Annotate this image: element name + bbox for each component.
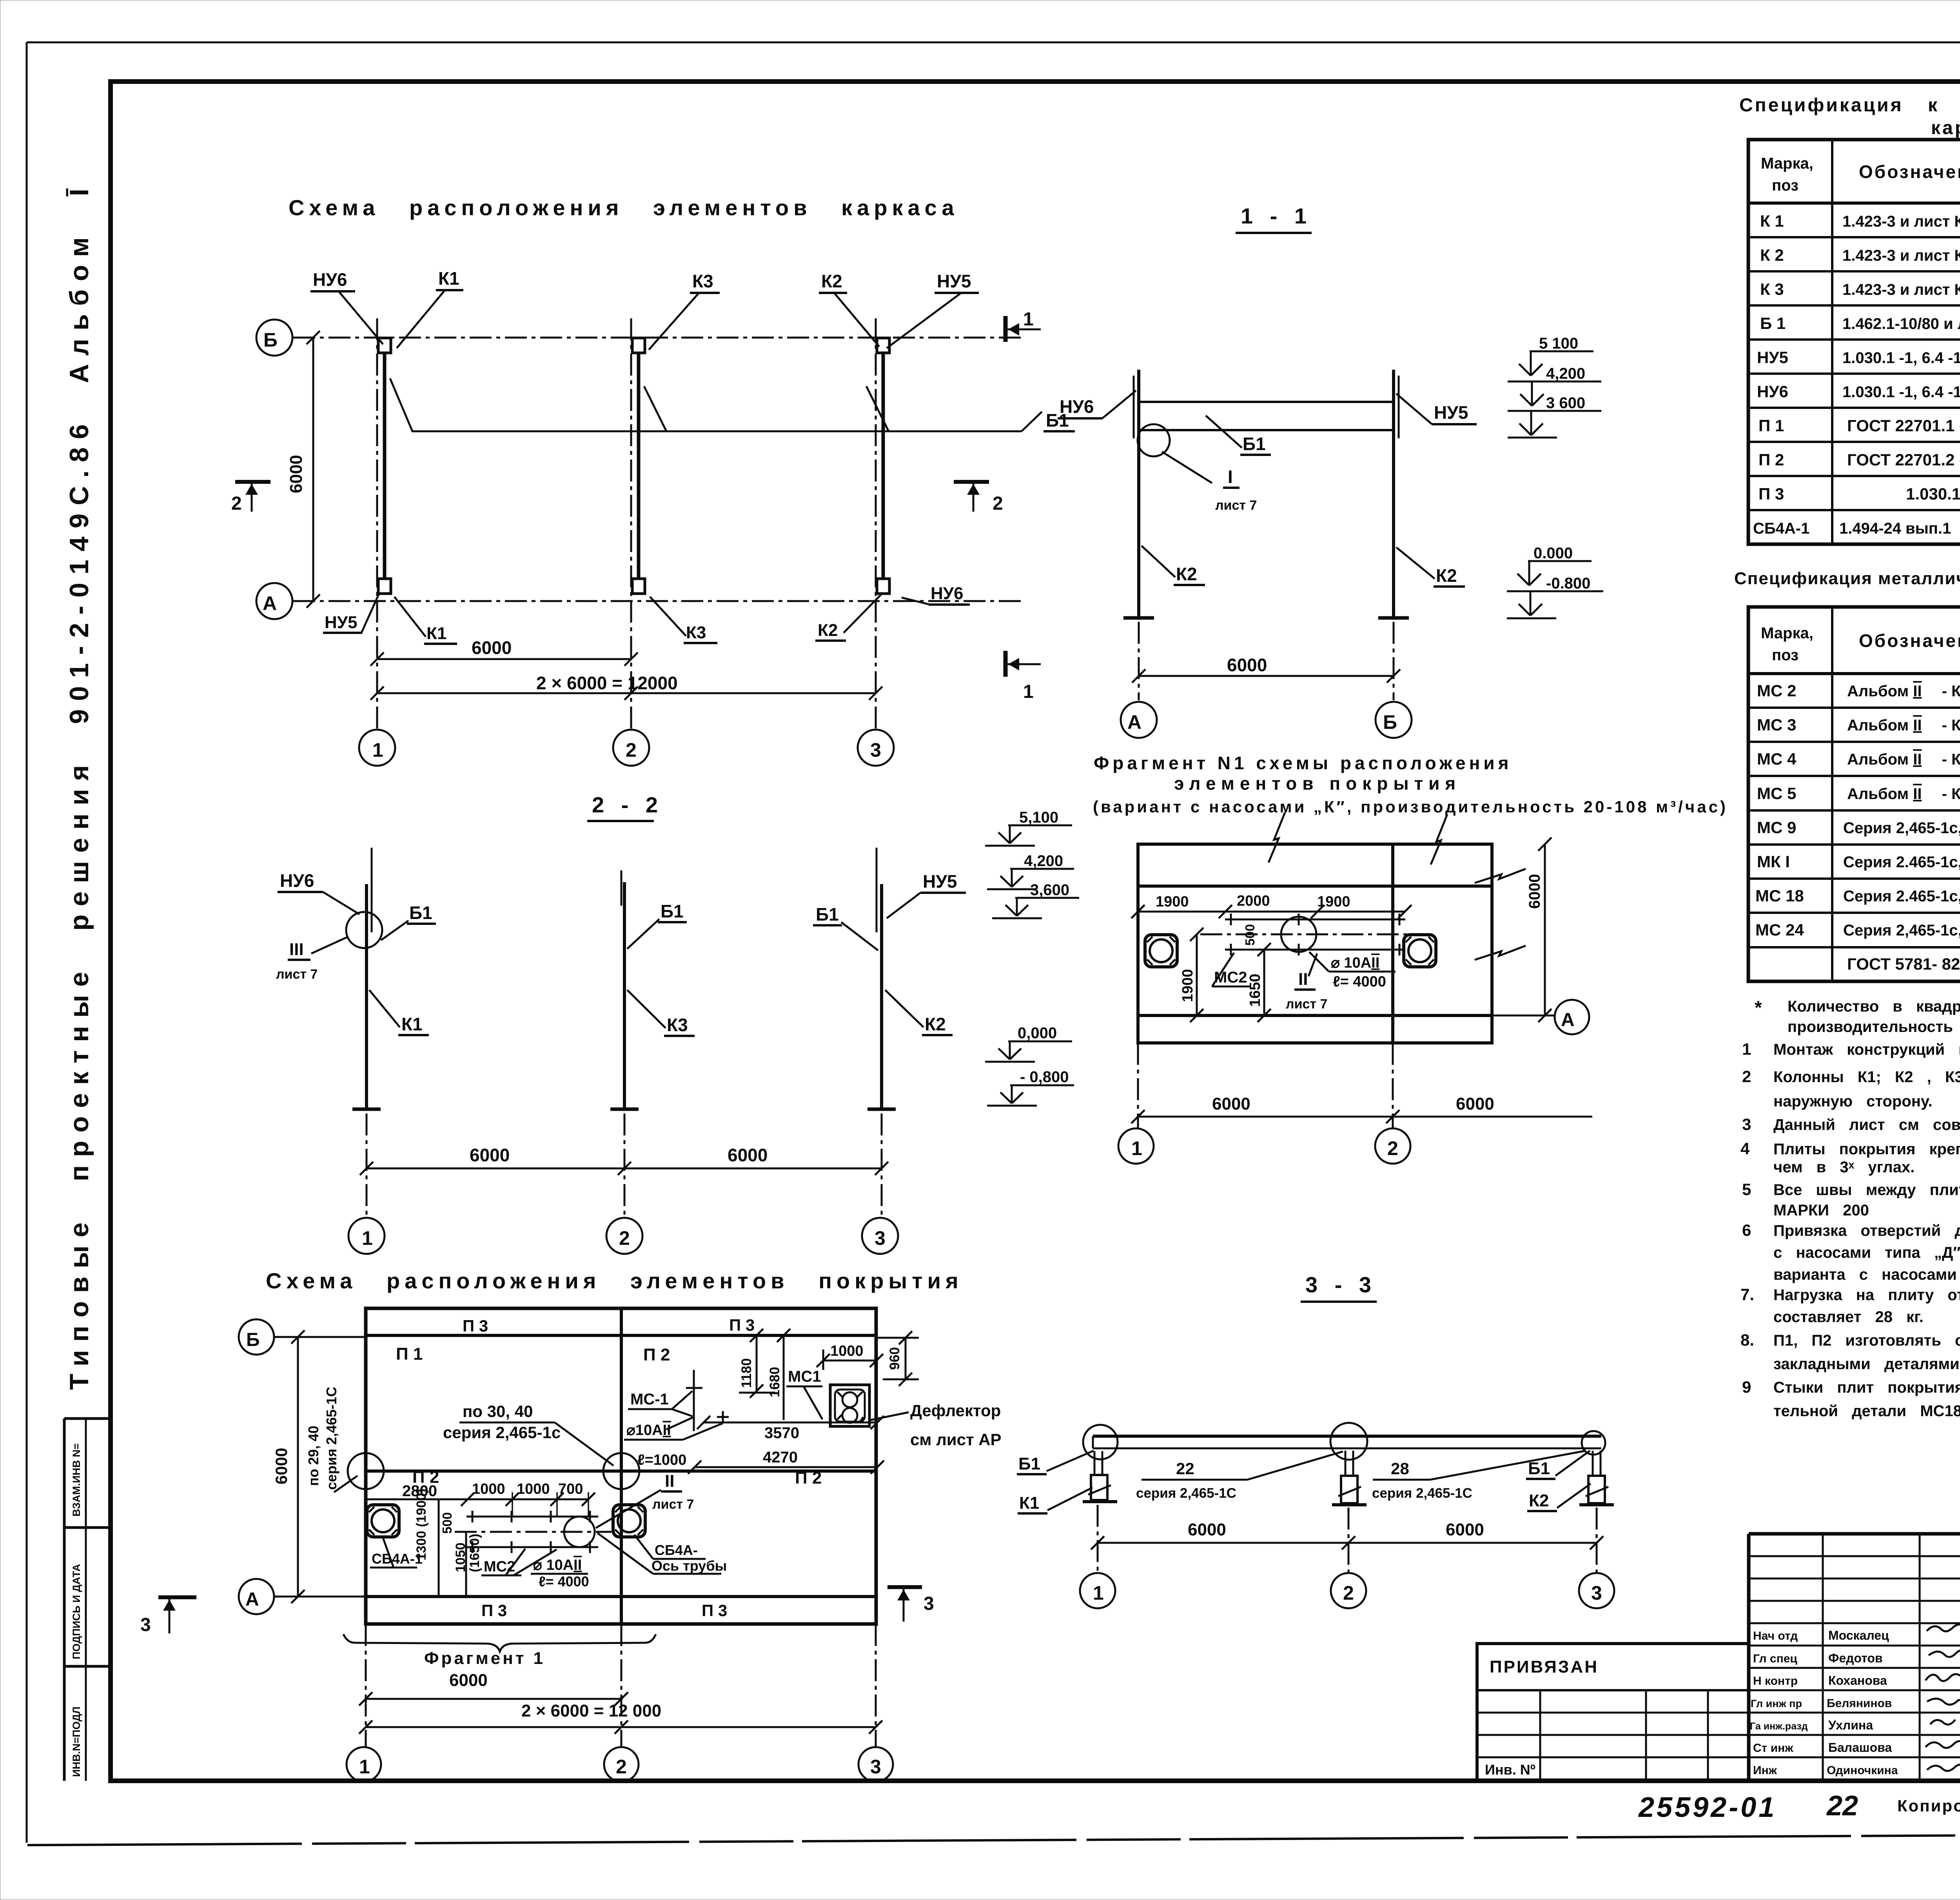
svg-text:МАРКИ 200: МАРКИ 200 (1773, 1202, 1869, 1219)
svg-text:МС 2: МС 2 (1757, 681, 1796, 700)
svg-text:2: 2 (1343, 1582, 1354, 1604)
axis A circle (274, 1596, 366, 1598)
svg-text:II: II (665, 1471, 674, 1491)
dim 1900 rotated (1196, 934, 1198, 1015)
svg-text:по 29, 40: по 29, 40 (305, 1426, 321, 1486)
axes to circles (1097, 1505, 1099, 1572)
svg-text:1: 1 (372, 739, 383, 761)
dim 1300 (1900) rotated (438, 1499, 440, 1597)
svg-text:1680: 1680 (767, 1367, 782, 1397)
break mark top 2 (1431, 814, 1447, 865)
svg-text:НУ5: НУ5 (937, 271, 971, 291)
svg-text:П 3: П 3 (481, 1601, 507, 1620)
svg-text:960: 960 (887, 1347, 902, 1370)
axis 2 divider (1391, 844, 1394, 1043)
svg-text:чем в 3ˣ углах.: чем в 3ˣ углах. (1773, 1159, 1915, 1176)
svg-text:П 3: П 3 (729, 1316, 755, 1334)
svg-text:1050: 1050 (453, 1542, 468, 1572)
svg-text:Б: Б (246, 1330, 260, 1350)
axis 1 line + circle (1137, 1043, 1139, 1128)
svg-text:2: 2 (616, 1756, 627, 1778)
svg-text:6000: 6000 (1456, 1094, 1494, 1113)
svg-text:6000: 6000 (449, 1671, 488, 1690)
svg-text:Б1: Б1 (816, 904, 839, 925)
svg-text:П 3: П 3 (702, 1601, 727, 1620)
svg-text:-0.800: -0.800 (1546, 575, 1590, 592)
svg-text:6: 6 (1742, 1221, 1751, 1239)
svg-text:2: 2 (626, 739, 637, 761)
axis lines to circles (365, 1624, 367, 1747)
svg-text:⌀10АII: ⌀10АII (626, 1422, 671, 1439)
axis 2 circle (604, 1747, 639, 1782)
axis 1 circle (359, 730, 395, 766)
svg-text:НУ6: НУ6 (931, 584, 964, 603)
svg-text:составляет 28 кг.: составляет 28 кг. (1773, 1308, 1924, 1326)
svg-text:П1, П2 изготовлять с пазами: П1, П2 изготовлять с пазами по ГОСТ- 227… (1773, 1332, 1960, 1349)
svg-text:см лист АР: см лист АР (910, 1430, 1002, 1449)
svg-text:Количество в квадратных ско: Количество в квадратных скобках дано для… (1788, 998, 1960, 1015)
svg-text:Н контр: Н контр (1753, 1675, 1798, 1687)
axis 1 circle (347, 1747, 381, 1782)
svg-text:⌀ 10АII: ⌀ 10АII (533, 1557, 582, 1573)
node circle axis3 (1582, 1431, 1605, 1455)
break mark top 1 (1269, 812, 1285, 863)
svg-text:Привязка отверстий для креп: Привязка отверстий для крепления трубы d… (1773, 1222, 1960, 1239)
P3 strip top line / axis Б (366, 1334, 876, 1337)
axis A line / P3 strip bottom (366, 1595, 876, 1598)
svg-text:1: 1 (1093, 1582, 1104, 1604)
svg-text:1180: 1180 (739, 1358, 754, 1388)
svg-text:ℓ=1000: ℓ=1000 (637, 1452, 686, 1468)
outer thin scan border (27, 42, 1960, 44)
svg-text:К1: К1 (426, 624, 446, 643)
section mark 2 left (235, 480, 270, 484)
svg-text:Серия 2.465-1с, в 0: Серия 2.465-1с, в 0 (1843, 888, 1960, 905)
svg-text:2: 2 (993, 493, 1003, 514)
svg-text:Б1: Б1 (1528, 1459, 1550, 1478)
beam diagonal at col1 (390, 378, 412, 431)
svg-text:6000: 6000 (1227, 655, 1267, 675)
svg-text:К 1: К 1 (1760, 212, 1784, 230)
svg-text:6000: 6000 (1188, 1520, 1226, 1539)
svg-text:5: 5 (1742, 1180, 1751, 1199)
svg-text:элементов покрытия: элементов покрытия (1174, 773, 1461, 794)
svg-text:7.: 7. (1740, 1285, 1754, 1304)
deflector symbol (830, 1385, 869, 1426)
axis A circle (256, 583, 292, 619)
svg-text:НУ5: НУ5 (1757, 348, 1788, 367)
svg-text:варианта с насосами типа „: варианта с насосами типа „ К″, производи… (1773, 1266, 1960, 1283)
svg-text:4,200: 4,200 (1024, 852, 1063, 870)
node circle axis1 (348, 1453, 384, 1489)
break mark right 2 (1475, 946, 1526, 960)
svg-text:6000: 6000 (272, 1448, 290, 1484)
svg-text:НУ5: НУ5 (1434, 402, 1468, 423)
svg-text:Спецификация к схемам распо: Спецификация к схемам расположения элеме… (1739, 95, 1960, 116)
svg-text:серия 2,465-1С: серия 2,465-1С (1372, 1486, 1472, 1501)
svg-text:Марка,: Марка, (1761, 625, 1813, 642)
svg-text:Гл инж пр: Гл инж пр (1751, 1698, 1802, 1709)
svg-text:2: 2 (1387, 1137, 1398, 1159)
top P3 strip line (1138, 885, 1492, 888)
svg-text:II: II (1298, 970, 1308, 989)
svg-text:Типовые проектные решения: Типовые проектные решения 901-2-0149С.86… (64, 180, 94, 1390)
svg-text:тельной детали МС18 только: тельной детали МС18 только при сейсмично… (1773, 1402, 1960, 1420)
section mark 1 bottom (1004, 651, 1008, 677)
svg-text:Б1: Б1 (1018, 1454, 1040, 1473)
dim line 6000 (axes 1-2) (377, 658, 631, 660)
svg-text:ИНВ.N=ПОДЛ: ИНВ.N=ПОДЛ (71, 1707, 82, 1777)
node circle axis1 (1083, 1425, 1118, 1459)
svg-text:6000: 6000 (287, 455, 306, 493)
stamp outline (1749, 1532, 1960, 1536)
svg-text:2: 2 (1742, 1067, 1751, 1086)
svg-text:П 2: П 2 (795, 1468, 822, 1488)
svg-text:1.423-3 и лист КЖИ-1.1: 1.423-3 и лист КЖИ-1.1 (1842, 281, 1960, 298)
svg-text:НУ6: НУ6 (313, 269, 347, 290)
svg-text:Серия 2,465-1с, в 0: Серия 2,465-1с, в 0 (1843, 922, 1960, 939)
svg-text:3: 3 (875, 1227, 886, 1249)
svg-text:Балашова: Балашова (1828, 1740, 1892, 1755)
svg-text:П 1: П 1 (1759, 416, 1784, 435)
svg-text:1000: 1000 (830, 1343, 864, 1359)
section mark 1 top (1004, 316, 1008, 342)
svg-text:⌀ 10АII: ⌀ 10АII (1331, 955, 1379, 971)
svg-text:Б1: Б1 (661, 901, 684, 921)
svg-text:К2: К2 (1176, 564, 1197, 584)
column K2 axis3 (877, 338, 889, 353)
svg-text:НУ6: НУ6 (280, 870, 314, 891)
dim 2x6000=12000 (366, 1726, 876, 1728)
svg-text:закладными деталями М10 (см.: закладными деталями М10 (см. ГОСТ 22701.… (1773, 1355, 1960, 1373)
svg-text:НУ5: НУ5 (923, 871, 957, 892)
svg-text:Монтаж конструкций вести` в: Монтаж конструкций вести` в соответствии… (1773, 1041, 1960, 1058)
svg-text:22: 22 (1176, 1459, 1194, 1478)
svg-text:МС 9: МС 9 (1757, 818, 1796, 837)
axis 1 vertical (376, 318, 378, 728)
svg-text:1: 1 (1131, 1137, 1142, 1159)
svg-text:лист 7: лист 7 (652, 1497, 694, 1512)
svg-text:П 1: П 1 (396, 1344, 423, 1364)
svg-text:МК I: МК I (1757, 852, 1790, 871)
svg-text:Белянинов: Белянинов (1827, 1697, 1892, 1710)
svg-text:МС 3: МС 3 (1757, 716, 1796, 734)
svg-text:22: 22 (1826, 1790, 1858, 1822)
svg-text:1: 1 (1742, 1040, 1751, 1058)
section mark 3 left (158, 1595, 196, 1599)
axis 2 vertical (630, 318, 632, 728)
svg-text:Копировал: Копировал (1897, 1796, 1960, 1815)
svg-text:- 0,800: - 0,800 (1020, 1068, 1069, 1086)
svg-text:1: 1 (1023, 309, 1034, 330)
plus mark on 3570 line (717, 1411, 729, 1423)
svg-text:Федотов: Федотов (1828, 1651, 1883, 1665)
svg-text:Схема расположения элементов: Схема расположения элементов покрытия (266, 1268, 963, 1293)
node circle axis2 (1330, 1423, 1367, 1460)
svg-text:4270: 4270 (763, 1449, 798, 1466)
svg-text:Коханова: Коханова (1828, 1673, 1887, 1687)
axis lines below (1138, 622, 1140, 700)
svg-text:Плиты покрытия крепятся к: Плиты покрытия крепятся к балкам сварным… (1773, 1141, 1960, 1158)
svg-text:Серия 2,465-1с, в 0: Серия 2,465-1с, в 0 (1843, 819, 1960, 837)
svg-text:Нагрузка на плиту от МС-2: Нагрузка на плиту от МС-2 ( подвеска тру… (1773, 1286, 1960, 1304)
beam B1 (1139, 401, 1394, 403)
vertical dim 6000 left (297, 1337, 299, 1597)
svg-text:2000: 2000 (1237, 893, 1270, 909)
axis 2 circle (1331, 1573, 1366, 1608)
svg-text:МС 24: МС 24 (1755, 921, 1804, 939)
svg-text:лист 7: лист 7 (1215, 498, 1257, 513)
svg-text:4: 4 (1740, 1139, 1750, 1158)
svg-text:25592-01: 25592-01 (1638, 1792, 1777, 1823)
svg-text:П 3: П 3 (463, 1317, 488, 1335)
svg-text:Б1: Б1 (409, 903, 432, 923)
svg-text:Б: Б (263, 329, 278, 351)
column K2 (880, 884, 883, 1109)
svg-text:Стыки плит покрытия выполня: Стыки плит покрытия выполнять по узлу 40… (1773, 1379, 1960, 1396)
svg-text:А: А (245, 1589, 259, 1610)
svg-text:лист 7: лист 7 (276, 967, 318, 982)
svg-text:Нач отд: Нач отд (1753, 1629, 1798, 1642)
svg-text:*: * (1755, 997, 1762, 1018)
svg-text:500: 500 (440, 1512, 454, 1534)
axis A circle (1555, 1000, 1589, 1034)
svg-text:1: 1 (1023, 681, 1034, 702)
svg-text:Обозначение: Обозначение (1859, 630, 1960, 651)
svg-text:8.: 8. (1740, 1331, 1754, 1349)
svg-text:СБ4А-1: СБ4А-1 (1753, 520, 1809, 537)
svg-text:производительность 20 -108 м³/: производительность 20 -108 м³/ час (1788, 1018, 1960, 1035)
svg-text:ГОСТ 22701.2 - 77*: ГОСТ 22701.2 - 77* (1847, 450, 1960, 469)
svg-text:6000: 6000 (1526, 874, 1543, 909)
svg-text:3: 3 (870, 739, 881, 761)
svg-text:серия 2,465-1С: серия 2,465-1С (323, 1387, 339, 1490)
dim 6000 6000 (1098, 1542, 1597, 1544)
svg-text:Обозначение: Обозначение (1859, 162, 1960, 182)
svg-text:1.462.1-10/80 и лист КЖИ-3.1: 1.462.1-10/80 и лист КЖИ-3.1 (1842, 315, 1960, 332)
svg-text:6000: 6000 (1212, 1094, 1250, 1113)
svg-text:НУ6: НУ6 (1757, 382, 1788, 401)
svg-text:Б1: Б1 (1243, 434, 1266, 454)
svg-text:с насосами типа „Д″, в круг: с насосами типа „Д″, в круглых скобках д… (1773, 1244, 1960, 1261)
dim 1050 (1650) rotated (465, 1532, 467, 1597)
svg-text:П 2: П 2 (643, 1345, 670, 1364)
svg-text:лист 7: лист 7 (1286, 997, 1327, 1012)
svg-text:К2: К2 (818, 621, 838, 640)
dim 6000 (1139, 675, 1394, 677)
dim 960 rotated (905, 1338, 907, 1379)
svg-text:Га инж.разд: Га инж.разд (1750, 1721, 1808, 1732)
svg-text:по 30, 40: по 30, 40 (463, 1402, 533, 1420)
svg-text:ГОСТ 5781- 82*: ГОСТ 5781- 82* (1847, 955, 1960, 973)
svg-text:(вариант с насосами „К″, произ: (вариант с насосами „К″, производительно… (1093, 797, 1728, 816)
dim 3570 (704, 1422, 877, 1424)
svg-text:К1: К1 (401, 1014, 423, 1034)
svg-text:К 2: К 2 (1760, 246, 1784, 264)
svg-text:3 600: 3 600 (1546, 394, 1585, 412)
MC-1 tick (693, 1370, 695, 1431)
svg-text:1: 1 (359, 1756, 370, 1778)
svg-text:К3: К3 (692, 271, 713, 291)
svg-text:2: 2 (619, 1227, 630, 1249)
svg-text:МС1: МС1 (788, 1368, 821, 1385)
axis 3 circle (858, 1747, 893, 1782)
svg-text:А: А (1127, 711, 1142, 733)
svg-text:1900: 1900 (1156, 894, 1189, 910)
SB4A right (1404, 935, 1436, 967)
svg-text:МС-1: МС-1 (630, 1391, 669, 1408)
svg-text:К1: К1 (438, 268, 459, 289)
svg-text:1.423-3 и лист КЖИ-1,1: 1.423-3 и лист КЖИ-1,1 (1842, 213, 1960, 230)
svg-text:Альбом II - КЖИ-6.6: Альбом II - КЖИ-6.6 (1847, 751, 1960, 768)
signatures (1927, 1624, 1960, 1631)
svg-text:1900: 1900 (1317, 894, 1350, 910)
axis 3 circle (1579, 1573, 1614, 1608)
svg-text:А: А (1561, 1010, 1575, 1030)
axis Б circle (274, 1336, 366, 1338)
svg-text:3: 3 (1591, 1582, 1602, 1604)
break mark right 1 (1475, 869, 1526, 883)
ground marks (352, 1108, 381, 1111)
svg-text:Одиночкина: Одиночкина (1827, 1764, 1898, 1777)
section mark 2 right (954, 480, 989, 484)
svg-text:ℓ= 4000: ℓ= 4000 (1333, 974, 1386, 990)
table 2 grid (1748, 607, 1960, 981)
axis 3 circle (862, 1218, 898, 1254)
svg-text:МС 18: МС 18 (1755, 886, 1804, 905)
dim 6000+6000 (367, 1168, 882, 1170)
pipe node circle (1281, 917, 1316, 952)
svg-text:Дефлектор: Дефлектор (910, 1401, 1001, 1420)
dim line 2x6000=12000 (377, 692, 876, 694)
svg-text:Гл спец: Гл спец (1753, 1652, 1797, 1665)
column K3 axis2 (632, 338, 645, 353)
section mark 3 right (887, 1585, 922, 1589)
roof beam lines (1093, 1435, 1601, 1438)
svg-text:МС 4: МС 4 (1757, 750, 1797, 768)
label B1 right (1022, 412, 1042, 431)
svg-text:6000: 6000 (470, 1145, 510, 1165)
svg-text:(1650): (1650) (467, 1534, 482, 1572)
svg-text:К2: К2 (1436, 565, 1457, 586)
label Deflektor (870, 1412, 909, 1420)
svg-text:6000: 6000 (1446, 1520, 1484, 1539)
beam diagonal at col2 (644, 386, 666, 431)
svg-text:Ось трубы: Ось трубы (652, 1558, 727, 1574)
svg-text:МС 5: МС 5 (1757, 784, 1796, 803)
left attribute strip (64, 1419, 111, 1666)
svg-text:Альбом II - КЖИ-Б.4: Альбом II - КЖИ-Б.4 (1847, 683, 1960, 700)
svg-text:Б: Б (1383, 711, 1397, 733)
svg-text:К2: К2 (925, 1014, 946, 1034)
svg-text:6000: 6000 (472, 638, 512, 658)
svg-text:МС2: МС2 (484, 1559, 515, 1575)
svg-text:5,100: 5,100 (1019, 809, 1058, 826)
axis A leader to circle (1492, 1015, 1554, 1017)
svg-text:2 × 6000 = 12 000: 2 × 6000 = 12 000 (521, 1701, 661, 1720)
stamp left columns (1823, 1534, 1960, 1781)
svg-text:Москалец: Москалец (1828, 1628, 1889, 1642)
svg-text:1000: 1000 (472, 1481, 505, 1497)
dim 4270 (695, 1466, 877, 1468)
axis lines to circles (366, 1113, 368, 1217)
dim 6000 (366, 1698, 621, 1700)
svg-text:3,600: 3,600 (1030, 881, 1069, 899)
svg-text:НУ6: НУ6 (1060, 396, 1094, 417)
axis A circle (1121, 702, 1157, 738)
pipe band lower (468, 1516, 598, 1518)
column K1 neck and box (1094, 1451, 1102, 1475)
svg-text:3: 3 (924, 1593, 934, 1614)
svg-text:П 3: П 3 (1759, 485, 1784, 503)
svg-text:28: 28 (1391, 1459, 1409, 1478)
svg-text:1.423-3 и лист КЖИ-1.1: 1.423-3 и лист КЖИ-1.1 (1842, 247, 1960, 264)
svg-text:К 3: К 3 (1760, 280, 1784, 298)
svg-text:серия 2,465-1с: серия 2,465-1с (443, 1423, 561, 1442)
SB4A left (1145, 935, 1177, 967)
svg-text:1300 (1900): 1300 (1900) (414, 1489, 429, 1560)
svg-text:поз: поз (1772, 177, 1798, 194)
svg-text:3: 3 (140, 1615, 151, 1635)
dim 1650 rotated (1263, 950, 1265, 1015)
vertical dim 6000 (312, 338, 314, 601)
axis 1 circle (1080, 1573, 1115, 1608)
node circle III (346, 912, 382, 948)
svg-text:2 - 2: 2 - 2 (592, 792, 663, 817)
svg-text:Альбом II - КЖИ-6.6: Альбом II - КЖИ-6.6 (1847, 785, 1960, 803)
right post K2/NU5 (1392, 370, 1395, 618)
svg-text:6000: 6000 (728, 1145, 768, 1165)
axis 1 circle (348, 1218, 385, 1254)
beam diagonal at col3 (866, 386, 889, 431)
axis A line (293, 600, 1024, 602)
axis Б circle (256, 320, 292, 356)
fragment 1 brace (343, 1634, 656, 1651)
svg-text:500: 500 (1243, 924, 1257, 946)
svg-text:1.494-24 вып.1: 1.494-24 вып.1 (1839, 520, 1951, 537)
axis 2 circle (606, 1218, 642, 1254)
svg-text:Колонны К1; К2 , К3 ориенти: Колонны К1; К2 , К3 ориентировать заклад… (1773, 1068, 1960, 1086)
svg-text:Ст инж: Ст инж (1753, 1742, 1793, 1755)
svg-text:2 × 6000 = 12000: 2 × 6000 = 12000 (536, 673, 678, 693)
svg-text:3: 3 (870, 1756, 881, 1778)
SB4A symbol right (613, 1505, 645, 1537)
svg-text:К2: К2 (821, 271, 842, 291)
svg-text:1650: 1650 (1247, 974, 1263, 1007)
svg-text:I: I (1228, 467, 1233, 487)
svg-text:поз: поз (1772, 647, 1798, 664)
svg-text:Альбом II - КЖИ-6.5: Альбом II - КЖИ-6.5 (1847, 717, 1960, 734)
column K3 (623, 882, 626, 1109)
svg-text:ℓ= 4000: ℓ= 4000 (539, 1573, 589, 1589)
svg-text:4,200: 4,200 (1546, 365, 1585, 382)
beam B1 line (412, 430, 1022, 432)
svg-text:НУ5: НУ5 (325, 613, 358, 632)
ground marks (1123, 616, 1154, 620)
svg-text:III: III (289, 940, 304, 959)
right vertical dim 6000 (1544, 844, 1546, 1015)
svg-text:К3: К3 (667, 1015, 688, 1035)
svg-text:1.030.1 -1, 6.4 -1: 1.030.1 -1, 6.4 -1 (1842, 383, 1960, 401)
svg-text:К3: К3 (686, 623, 706, 642)
column K3 neck and box (1345, 1451, 1353, 1476)
pipe band lines (1225, 919, 1405, 921)
stamp left rows (1749, 1556, 1960, 1757)
svg-text:Марка,: Марка, (1761, 155, 1813, 172)
bottom dim 6000 6000 (1138, 1116, 1592, 1118)
svg-text:ВЗАМ.ИНВ N=: ВЗАМ.ИНВ N= (71, 1443, 82, 1517)
dim 1180 rotated (756, 1335, 758, 1391)
